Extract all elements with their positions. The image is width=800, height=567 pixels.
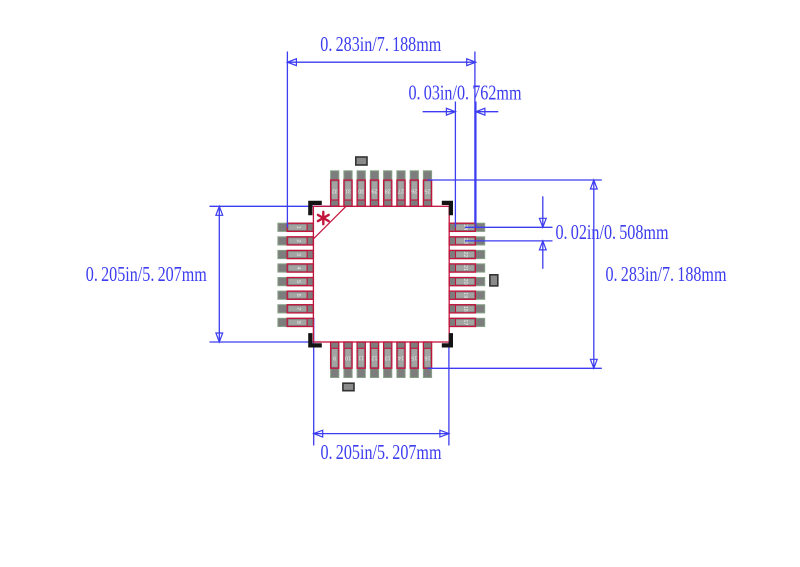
dim ext line right-bottom: [428, 367, 602, 369]
dim line pitch upper tail: [542, 196, 544, 227]
svg-text:8: 8: [295, 321, 301, 324]
pad 16 (bottom): [423, 342, 431, 378]
arrow pitch up: [539, 241, 546, 250]
pad 25 (top): [423, 171, 431, 207]
dim line left span: [218, 206, 220, 342]
silkscreen corner bracket bottom-left: [310, 333, 322, 345]
arrow top-left: [287, 59, 296, 66]
arrow right-top: [590, 180, 597, 189]
dim ext line bottom-right: [448, 342, 450, 446]
pad 32 (top): [331, 171, 339, 207]
dim ext line top-left: [286, 52, 288, 228]
svg-text:25: 25: [424, 188, 430, 194]
pad 20 (right): [449, 278, 485, 286]
svg-text:7: 7: [295, 307, 301, 310]
dim line pad-width left tail: [423, 111, 456, 113]
svg-text:0. 205in/5. 207mm: 0. 205in/5. 207mm: [321, 440, 442, 464]
pad 2 (left): [278, 237, 314, 245]
svg-text:32: 32: [332, 188, 338, 194]
silkscreen corner bracket top-left: [310, 203, 322, 215]
pad 14 (bottom): [397, 342, 405, 378]
arrow right-bottom: [590, 359, 597, 368]
svg-text:12: 12: [371, 355, 377, 361]
svg-text:0. 205in/5. 207mm: 0. 205in/5. 207mm: [86, 262, 207, 286]
pad 15 (bottom): [410, 342, 418, 378]
svg-text:17: 17: [462, 319, 468, 325]
silkscreen corner bracket bottom-right: [442, 333, 451, 345]
pad 19 (right): [449, 291, 485, 299]
svg-text:4: 4: [295, 266, 301, 269]
arrow bottom-left: [314, 430, 323, 437]
dim ext line right-top: [428, 179, 602, 181]
fiducial square bottom: [343, 383, 354, 391]
svg-text:11: 11: [358, 355, 364, 361]
pad 26 (top): [410, 171, 418, 207]
pad 7 (left): [278, 305, 314, 313]
pad 8 (left): [278, 318, 314, 326]
pad 29 (top): [370, 171, 378, 207]
svg-text:28: 28: [385, 188, 391, 194]
svg-text:0. 03in/0. 762mm: 0. 03in/0. 762mm: [409, 81, 522, 105]
pad 11 (bottom): [357, 342, 365, 378]
svg-text:21: 21: [462, 265, 468, 271]
svg-text:5: 5: [295, 280, 301, 283]
svg-text:26: 26: [411, 188, 417, 194]
pad 30 (top): [357, 171, 365, 207]
arrow left-bottom: [216, 333, 223, 342]
svg-text:20: 20: [462, 279, 468, 285]
svg-text:29: 29: [371, 188, 377, 194]
body outline U1: [313, 206, 449, 342]
arrow pitch down: [539, 218, 546, 227]
svg-text:1: 1: [295, 226, 301, 229]
pad 6 (left): [278, 291, 314, 299]
pad 12 (bottom): [370, 342, 378, 378]
pad 28 (top): [384, 171, 392, 207]
pin-1 chamfer line: [313, 206, 346, 239]
svg-text:22: 22: [462, 251, 468, 257]
svg-text:14: 14: [398, 355, 404, 361]
svg-text:27: 27: [398, 188, 404, 194]
dim ext line pad-width left: [454, 102, 456, 228]
dim line bottom span: [314, 433, 449, 435]
svg-text:6: 6: [295, 294, 301, 297]
pad 27 (top): [397, 171, 405, 207]
svg-text:19: 19: [462, 292, 468, 298]
pad 21 (right): [449, 264, 485, 272]
pad 1 (left): [278, 223, 314, 231]
arrow left-top: [216, 206, 223, 215]
dim ext line left-top: [210, 205, 335, 207]
dim ext line bottom-left: [313, 318, 315, 446]
arrow pad-width left: [446, 108, 455, 115]
pad 22 (right): [449, 250, 485, 258]
svg-text:16: 16: [424, 355, 430, 361]
dim line pad-width right tail: [476, 111, 498, 113]
dim ext line pitch lower: [465, 240, 553, 242]
svg-text:15: 15: [411, 355, 417, 361]
svg-text:10: 10: [345, 355, 351, 361]
arrow pad-width right: [476, 108, 485, 115]
pad 9 (bottom): [331, 342, 339, 378]
arrow top-right: [467, 59, 476, 66]
svg-text:0. 283in/7. 188mm: 0. 283in/7. 188mm: [320, 32, 441, 56]
svg-text:0. 283in/7. 188mm: 0. 283in/7. 188mm: [606, 262, 727, 286]
pin-1 asterisk marker: [318, 212, 329, 224]
silkscreen corner bracket top-right: [442, 203, 451, 215]
dim ext line pad-width right: [475, 102, 477, 228]
svg-text:30: 30: [358, 188, 364, 194]
dim ext line left-bottom: [210, 341, 322, 343]
pad 24 (right): [449, 223, 485, 231]
svg-text:31: 31: [345, 188, 351, 194]
svg-text:13: 13: [385, 355, 391, 361]
svg-text:2: 2: [295, 239, 301, 242]
svg-text:18: 18: [462, 306, 468, 312]
fiducial square top: [356, 157, 367, 165]
arrow bottom-right: [440, 430, 449, 437]
pad 10 (bottom): [344, 342, 352, 378]
pad 23 (right): [449, 237, 485, 245]
pad 4 (left): [278, 264, 314, 272]
pad 5 (left): [278, 278, 314, 286]
fiducial square right: [490, 275, 498, 286]
svg-text:3: 3: [295, 253, 301, 256]
dim line pitch lower tail: [542, 241, 544, 269]
pad 17 (right): [449, 318, 485, 326]
pad 3 (left): [278, 250, 314, 258]
dim line top span: [287, 61, 475, 63]
svg-text:0. 02in/0. 508mm: 0. 02in/0. 508mm: [556, 220, 669, 244]
pad 18 (right): [449, 305, 485, 313]
svg-text:9: 9: [333, 355, 336, 361]
dim ext line pitch upper: [465, 226, 553, 228]
dim ext line top-right: [474, 52, 476, 224]
dim line right span: [593, 180, 595, 368]
pad 13 (bottom): [384, 342, 392, 378]
pad 31 (top): [344, 171, 352, 207]
